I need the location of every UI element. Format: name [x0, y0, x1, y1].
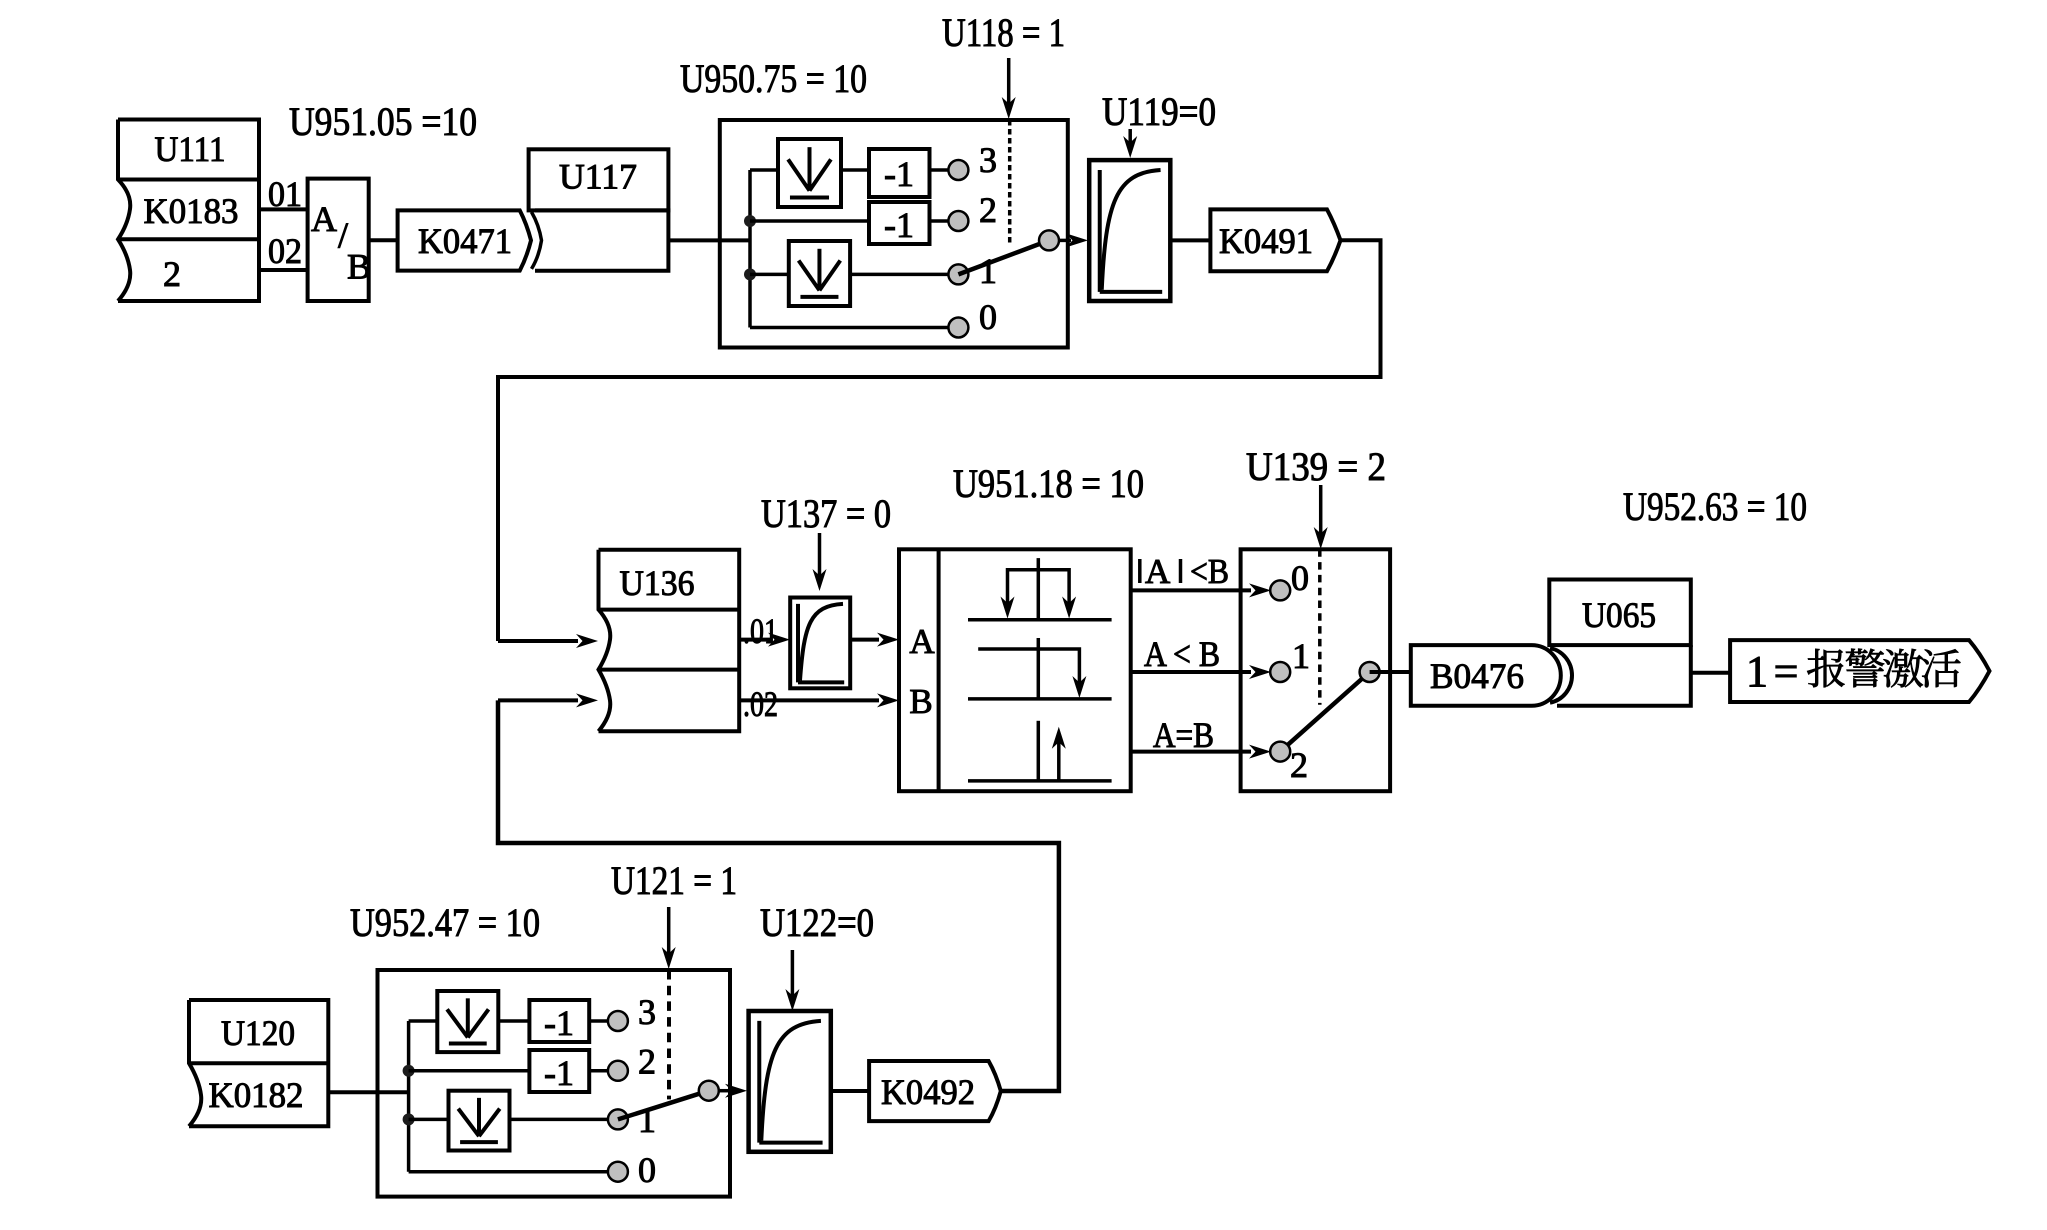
- wire U117 to selector box U950: [668, 238, 750, 242]
- input block U120 / K0182: [189, 1000, 328, 1126]
- svg-text:-1: -1: [884, 154, 914, 194]
- wire limiter to -1 row3: [841, 168, 869, 172]
- limiter (minimum) row3: [778, 139, 841, 207]
- wire to contact 0: [409, 1170, 609, 1174]
- svg-text:2: 2: [979, 190, 997, 230]
- wire U136.01 to U137: [739, 638, 770, 642]
- switch block U139: [1241, 549, 1391, 791]
- svg-text:U950.75 = 10: U950.75 = 10: [680, 56, 867, 101]
- junction dot row2: [744, 215, 756, 227]
- limiter (minimum) row1: [449, 1091, 510, 1151]
- svg-text:A < B: A < B: [1144, 634, 1220, 674]
- wire to -1 row2: [750, 219, 869, 223]
- contact circle 2: [1270, 742, 1290, 762]
- svg-text:U118 = 1: U118 = 1: [942, 10, 1065, 55]
- svg-text:K0471: K0471: [418, 221, 512, 261]
- switch common contact: [699, 1081, 719, 1101]
- svg-text:02: 02: [268, 231, 302, 271]
- contact circle 1: [608, 1109, 628, 1129]
- arrow U118 down: [1007, 58, 1011, 112]
- junction dot row1: [403, 1113, 415, 1125]
- wire U119 to K0491: [1170, 238, 1210, 242]
- connector K0492: [869, 1061, 1001, 1121]
- svg-text:U139 = 2: U139 = 2: [1246, 444, 1386, 489]
- svg-text:U119=0: U119=0: [1102, 89, 1216, 134]
- svg-text:<B: <B: [1190, 552, 1229, 591]
- svg-text:3: 3: [638, 992, 656, 1032]
- comparator block: [899, 549, 1131, 791]
- svg-text:0: 0: [1291, 558, 1309, 598]
- svg-text:K0491: K0491: [1219, 221, 1313, 261]
- switch arm U139: [1280, 672, 1369, 752]
- output label |A|<B: [1138, 559, 1142, 583]
- contact circle 1: [948, 264, 968, 284]
- input bus: [748, 170, 752, 328]
- wire U120 to selector box U952.47: [328, 1090, 408, 1094]
- svg-text:-1: -1: [544, 1053, 574, 1093]
- selector dashed line U139: [1318, 549, 1322, 704]
- svg-text:B: B: [347, 247, 371, 287]
- svg-text:U951.05 =10: U951.05 =10: [289, 99, 477, 144]
- wire limiter to contact 1: [510, 1118, 610, 1122]
- binector B0476: [1411, 645, 1561, 706]
- wire U111.01 to divider: [259, 207, 308, 211]
- svg-text:1: 1: [979, 251, 997, 291]
- switch common contact: [1039, 230, 1059, 250]
- wire |A|<B to contact 0: [1131, 588, 1251, 592]
- svg-text:=: =: [1774, 647, 1799, 696]
- svg-text:U120: U120: [221, 1013, 295, 1053]
- wire to -1 row2: [409, 1069, 530, 1073]
- switch common contact: [1360, 662, 1380, 682]
- arrow U121 down: [667, 907, 671, 962]
- gain -1 row3: [529, 1000, 589, 1042]
- selector dashed line U121: [667, 970, 671, 1099]
- gain -1 row2: [869, 202, 930, 244]
- chevron into U065: [1550, 648, 1572, 702]
- wire to limiter row3: [409, 1019, 438, 1023]
- arrow U137 down: [818, 533, 822, 584]
- block U136: [599, 550, 740, 732]
- junction dot row2: [403, 1065, 415, 1077]
- gain -1 row3: [869, 149, 930, 197]
- wire common to filter U119: [1059, 239, 1071, 243]
- svg-text:.02: .02: [743, 684, 778, 724]
- wire A<B to contact 1: [1131, 670, 1251, 674]
- wire K0492 feedback to U136.02: [498, 700, 1059, 1091]
- svg-text:3: 3: [979, 140, 997, 180]
- contact circle 0: [1270, 580, 1290, 600]
- svg-text:B0476: B0476: [1430, 656, 1524, 696]
- svg-text:2: 2: [163, 254, 181, 294]
- contact circle 3: [948, 160, 968, 180]
- junction dot row1: [744, 268, 756, 280]
- wire to limiter row1: [409, 1118, 449, 1122]
- svg-text:B: B: [909, 682, 932, 721]
- selector box U950.75: [720, 120, 1068, 348]
- svg-text:0: 0: [638, 1150, 656, 1190]
- filter PT1 U122: [749, 1011, 831, 1152]
- wire U111.02 to divider: [259, 268, 308, 272]
- wire -1 to contact 3: [930, 168, 951, 172]
- output banner CJK glyph 1: [1846, 649, 1884, 688]
- switch arm: [958, 240, 1049, 274]
- svg-text:1: 1: [1746, 647, 1768, 696]
- wire limiter to contact 1: [850, 273, 950, 277]
- block U065: [1549, 580, 1691, 646]
- svg-text:U065: U065: [1582, 595, 1656, 635]
- block U117: [529, 149, 669, 210]
- wire -1 to contact 2: [589, 1069, 609, 1073]
- svg-text:U952.63 = 10: U952.63 = 10: [1623, 484, 1807, 529]
- selector box U952.47: [378, 970, 731, 1197]
- connector K0471: [398, 210, 531, 270]
- connector K0491: [1210, 209, 1340, 271]
- input bus: [407, 1021, 411, 1172]
- gain -1 row2: [529, 1050, 589, 1092]
- output banner CJK glyph 0: [1807, 649, 1844, 688]
- wire to limiter row1: [750, 273, 789, 277]
- contact circle 2: [948, 211, 968, 231]
- selector dashed line U118: [1008, 120, 1012, 246]
- contact circle 2: [608, 1061, 628, 1081]
- contact circle 0: [608, 1162, 628, 1182]
- limiter (minimum) row1: [789, 241, 850, 306]
- wire common to filter U122: [718, 1089, 730, 1093]
- comparator icon |A|<B: [968, 618, 1112, 622]
- svg-text:U951.18 = 10: U951.18 = 10: [953, 461, 1144, 506]
- svg-text:U136: U136: [620, 563, 695, 603]
- wire to limiter row3: [750, 168, 778, 172]
- svg-text:A: A: [909, 622, 935, 661]
- svg-text:A: A: [1145, 552, 1171, 591]
- svg-text:-1: -1: [884, 205, 914, 245]
- svg-text:U111: U111: [155, 129, 226, 169]
- wire limiter to -1 row3: [498, 1019, 529, 1023]
- svg-text:U117: U117: [559, 157, 637, 197]
- wire divider to K0471: [369, 238, 398, 242]
- comparator icon A=B: [968, 779, 1112, 783]
- svg-text:-1: -1: [544, 1003, 574, 1043]
- arrow U119 down: [1128, 129, 1132, 151]
- wire U065 to output banner: [1691, 671, 1730, 675]
- svg-text:2: 2: [638, 1042, 656, 1082]
- wire A=B to contact 2: [1131, 750, 1251, 754]
- svg-text:K0182: K0182: [209, 1075, 304, 1115]
- output banner 1 = alarm active: [1730, 640, 1989, 702]
- svg-text:K0492: K0492: [881, 1072, 975, 1112]
- wire -1 to contact 2: [930, 219, 951, 223]
- contact circle 3: [608, 1011, 628, 1031]
- wire U122 to K0492: [831, 1089, 869, 1093]
- arrow U122 down: [791, 950, 795, 1004]
- output banner CJK glyph 3: [1922, 649, 1961, 687]
- arrow U139 down: [1319, 485, 1323, 542]
- svg-text:U121 = 1: U121 = 1: [611, 858, 737, 903]
- svg-text:U122=0: U122=0: [760, 900, 874, 945]
- svg-text:2: 2: [1290, 745, 1308, 785]
- wire U137 to comparator A: [850, 638, 879, 642]
- svg-text:0: 0: [979, 297, 997, 337]
- output banner CJK glyph 2: [1883, 649, 1923, 688]
- limiter (minimum) row3: [437, 991, 498, 1052]
- wire -1 to contact 3: [589, 1019, 609, 1023]
- svg-text:A: A: [311, 199, 337, 239]
- svg-text:U137 = 0: U137 = 0: [761, 491, 891, 536]
- divider block A/B: [308, 179, 369, 301]
- input block U111 / K0183 / 2: [118, 120, 259, 302]
- contact circle 1: [1270, 662, 1290, 682]
- contact circle 0: [948, 318, 968, 338]
- svg-text:A=B: A=B: [1153, 715, 1214, 755]
- wire U139 to B0476: [1370, 670, 1411, 674]
- chevron into U117: [532, 212, 542, 269]
- wire to contact 0: [750, 326, 950, 330]
- switch arm: [618, 1091, 709, 1120]
- filter PT1 U137: [790, 598, 850, 689]
- filter PT1 U119: [1089, 160, 1170, 301]
- svg-text:K0183: K0183: [144, 191, 239, 231]
- svg-text:U952.47 = 10: U952.47 = 10: [350, 900, 540, 945]
- svg-text:1: 1: [1292, 636, 1310, 676]
- comparator icon A<B: [968, 697, 1112, 701]
- wire U136.02 to comparator B: [739, 698, 879, 702]
- wire K0491 feedback to U136.01: [498, 240, 1381, 641]
